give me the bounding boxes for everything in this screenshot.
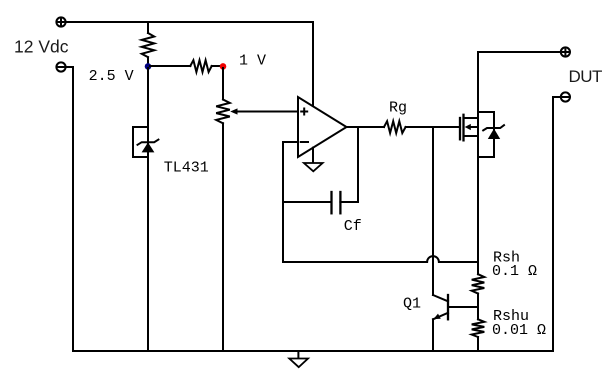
- wire Rg to gate: [406, 126, 460, 128]
- svg-text:TL431: TL431: [164, 160, 209, 177]
- terminal + (12 Vdc positive): [56, 17, 65, 26]
- wire pot bottom to ground rail: [222, 123, 224, 351]
- capacitor Cf: [332, 192, 341, 213]
- wire feedback with hop over gate-drive wire: [283, 256, 478, 262]
- svg-text:0.1 Ω: 0.1 Ω: [492, 263, 537, 280]
- resistor R1 (from +12 to 2.5V node): [142, 22, 155, 66]
- ground (op-amp): [304, 163, 323, 171]
- wire Q1 base: [448, 306, 478, 308]
- wire drain-source rail: [477, 52, 479, 262]
- resistor Rsh 0.1 ohm: [472, 262, 485, 307]
- mosfet M1 drain lead: [464, 117, 479, 119]
- node 1 V (red dot): [220, 63, 227, 70]
- op-amp U1: [298, 97, 347, 157]
- potentiometer RV1: [216, 100, 298, 124]
- svg-text:Rg: Rg: [389, 100, 407, 117]
- svg-text:DUT: DUT: [569, 67, 603, 86]
- svg-text:2.5 V: 2.5 V: [89, 68, 134, 85]
- wire DUT- down right rail: [553, 97, 561, 351]
- body diode D1: [478, 112, 504, 157]
- wire R2 to red node: [212, 65, 223, 67]
- mosfet M1 channel segments: [462, 115, 464, 141]
- svg-text:Q1: Q1: [403, 295, 421, 312]
- node 2.5 V (blue dot): [145, 63, 152, 70]
- resistor Rg: [384, 121, 406, 133]
- TL431 zener diode: [138, 140, 159, 153]
- svg-text:1 V: 1 V: [239, 53, 266, 70]
- terminal - (12 Vdc negative): [56, 62, 65, 71]
- wire TL431 cathode/anode vertical: [147, 68, 149, 351]
- wire gate drive down to Q1 collector: [432, 127, 434, 295]
- svg-text:0.01 Ω: 0.01 Ω: [492, 322, 546, 339]
- mosfet M1 gate bar: [459, 118, 461, 139]
- wire inverting input: [283, 142, 298, 262]
- svg-text:12 Vdc: 12 Vdc: [14, 37, 69, 57]
- TL431 body bracket: [133, 127, 148, 157]
- wire op-amp ground stub: [312, 148, 314, 163]
- mosfet M1 body arrow: [465, 124, 478, 130]
- resistor R2 (2.5V to 1V divider): [190, 60, 211, 72]
- transistor Q1: [433, 295, 448, 351]
- ground (bottom rail): [289, 351, 308, 367]
- svg-text:Cf: Cf: [344, 218, 362, 235]
- wire top rail: [66, 21, 313, 23]
- wire drain to DUT+: [478, 51, 561, 53]
- wire bottom ground rail: [73, 350, 553, 352]
- terminal - (DUT negative): [561, 92, 570, 101]
- wire negative lead down left rail: [66, 67, 73, 351]
- terminal + (DUT positive): [561, 47, 570, 56]
- wire Cf right to output: [340, 127, 358, 202]
- wire op-amp output: [347, 126, 385, 128]
- resistor Rshu 0.01 ohm: [472, 307, 485, 351]
- wire node to R2: [150, 65, 190, 67]
- wire red node to potentiometer: [222, 68, 224, 100]
- wire Cf left: [283, 201, 332, 203]
- mosfet M1 source lead: [464, 135, 479, 137]
- wire op-amp V+: [312, 22, 314, 107]
